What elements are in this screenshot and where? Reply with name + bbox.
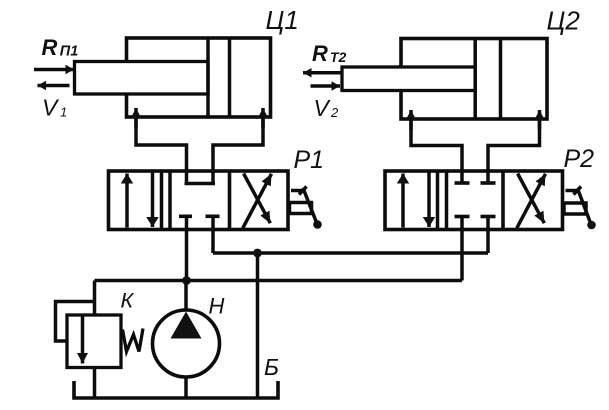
relief valve K spring	[123, 329, 144, 352]
svg-text:К: К	[121, 289, 135, 313]
velocity arrow V1 (out)	[38, 84, 70, 88]
force arrow R_P1 (into rod)	[34, 68, 74, 72]
svg-text:Н: Н	[209, 294, 225, 319]
pump N (Н) circle	[153, 310, 220, 377]
svg-text:Т2: Т2	[330, 49, 347, 65]
svg-text:1: 1	[60, 105, 67, 120]
relief valve K (К) body	[67, 315, 121, 368]
wire relief valve K to tank	[93, 368, 97, 399]
valve P2 lever actuator	[564, 187, 596, 230]
pump N triangle	[171, 312, 202, 339]
valve P1 divider lines	[160, 171, 164, 230]
cylinder C1 piston rod	[75, 62, 209, 95]
force arrow R_T2 (out of rod)	[303, 71, 342, 75]
wire pump suction to tank	[184, 377, 188, 398]
svg-text:V: V	[42, 95, 60, 121]
cylinder C2 piston (double line)	[473, 39, 477, 120]
svg-text:Б: Б	[264, 354, 279, 380]
wire P1 T-port stem down to tank line	[211, 216, 215, 253]
valve P2 right position: crossed arrow down-right	[518, 174, 545, 224]
wire pressure line down to relief valve K	[93, 281, 97, 316]
junction dot tank/return	[253, 249, 262, 258]
tank (reservoir)	[74, 381, 278, 398]
svg-text:R: R	[42, 35, 58, 60]
wire B return drop to tank	[256, 253, 260, 398]
wire pump to pressure junction	[184, 281, 188, 311]
valve P2 left position: down arrow	[427, 173, 431, 228]
valve P1 centre position: blocked P port (T symbol)	[179, 215, 192, 219]
junction dot pump/pressure	[182, 276, 191, 285]
svg-text:Р2: Р2	[564, 145, 595, 173]
valve P1 (Р1) body	[109, 171, 289, 230]
valve P1 left position: up arrow	[125, 174, 129, 228]
svg-text:V: V	[314, 95, 332, 121]
valve P2 centre position: blocked T port (T symbol)	[481, 215, 496, 219]
svg-text:П1: П1	[60, 44, 79, 60]
wire P2 T-port stem	[486, 217, 490, 254]
svg-text:Ц1: Ц1	[266, 5, 299, 35]
svg-text:R: R	[312, 41, 328, 66]
wire C1 right port to valve P1 port B (with arrowhead into cylinder)	[213, 118, 263, 184]
svg-text:Р1: Р1	[294, 146, 325, 174]
tank return line (P1 T to P2 T)	[213, 251, 488, 255]
valve P2 divider lines	[436, 171, 440, 230]
valve P2 right position: crossed arrow up-right	[517, 174, 546, 228]
svg-text:Ц2: Ц2	[547, 6, 581, 36]
wire C1 left port to valve P1 port A (with arrowhead into cylinder)	[136, 118, 187, 184]
valve P1 right position: crossed arrow up-right	[243, 174, 272, 228]
valve P2 centre position: blocked port A bar	[455, 181, 470, 185]
wire P2 P-port stem down to pressure line	[460, 217, 464, 281]
relief valve K pilot line	[56, 302, 95, 342]
relief valve K internal arrow (down)	[81, 315, 85, 364]
cylinder C1 piston (double line)	[206, 38, 210, 117]
cylinder C2 (Ц2) body	[401, 39, 547, 120]
wire P1 P-port stem down to pressure line	[185, 216, 189, 280]
velocity arrow V2 (in)	[311, 84, 341, 88]
cylinder C2 piston rod	[342, 67, 475, 91]
valve P2 centre position: blocked P port (T symbol)	[455, 215, 470, 219]
valve P1 left position: down arrow	[151, 173, 155, 228]
svg-text:2: 2	[330, 105, 339, 120]
wire C2 left port to valve P2 port A (with arrowhead into cylinder)	[411, 120, 462, 182]
pressure supply line	[95, 279, 463, 283]
valve P1 centre position: blocked T port (T symbol)	[206, 215, 220, 219]
valve P1 centre position: A-B bridge bar	[185, 182, 216, 186]
valve P2 centre position: blocked port B bar	[481, 181, 496, 185]
valve P1 right position: crossed arrow down-right	[244, 174, 271, 224]
valve P1 lever actuator	[290, 187, 322, 229]
wire C2 right port to valve P2 port B (with arrowhead into cylinder)	[488, 120, 540, 182]
cylinder C1 (Ц1) body	[127, 38, 271, 117]
valve P2 left position: up arrow	[401, 174, 405, 228]
valve P2 (Р2) body	[385, 171, 563, 230]
